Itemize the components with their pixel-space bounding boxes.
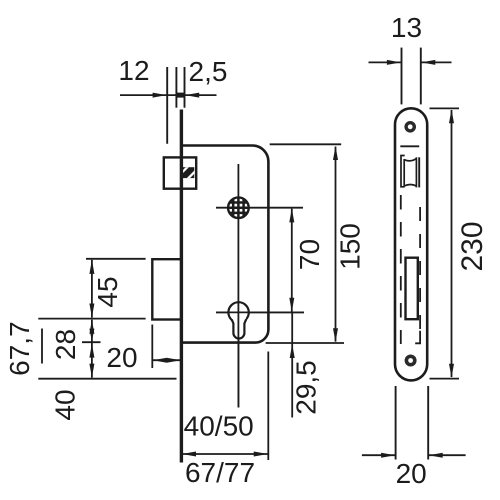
spindle follower (hatched circle) <box>228 197 249 218</box>
hidden line corner (case bottom right) <box>415 331 420 344</box>
tick line crossing 28 dimension <box>82 341 101 343</box>
lock case outline (side view) <box>183 146 269 343</box>
line L2 (y=378.7) <box>38 378 176 380</box>
bottom screw hole <box>405 355 417 367</box>
case bottom extension line <box>266 342 344 344</box>
deadbolt cutout <box>406 258 418 320</box>
svg-text:28: 28 <box>50 329 81 360</box>
latch bolt left edge <box>403 159 405 186</box>
dimension line 28 <box>91 320 93 378</box>
svg-text:40: 40 <box>49 389 80 420</box>
hidden line case top (behind plate) <box>400 145 419 147</box>
svg-text:13: 13 <box>391 12 422 43</box>
extension line A (x=167) for dim 12 <box>166 67 168 144</box>
hidden dashed line right (case side) <box>419 207 421 329</box>
latch cutout right edge <box>418 157 420 187</box>
svg-text:2,5: 2,5 <box>189 56 228 87</box>
top screw hole <box>404 121 416 133</box>
faceplate line D (side view) <box>180 110 183 463</box>
dimension line 29,5 <box>291 312 293 417</box>
ext lines for 13 <box>401 48 403 105</box>
svg-text:150: 150 <box>335 223 366 270</box>
svg-text:45: 45 <box>92 276 123 307</box>
dimension line 150 <box>335 147 337 342</box>
svg-text:40/50: 40/50 <box>184 411 254 442</box>
extension line deadbolt left face <box>151 325 153 369</box>
dimension line 12 / 2,5 <box>120 94 217 96</box>
dimension line 70 <box>291 209 293 312</box>
arrowhead left toward line C <box>185 93 199 98</box>
case back extension line <box>267 352 269 461</box>
svg-text:67/77: 67/77 <box>185 457 255 488</box>
svg-text:29,5: 29,5 <box>291 360 322 415</box>
latch bolt (side view) <box>164 157 196 188</box>
cylinder center line re-draw over keyhole <box>237 302 239 407</box>
extension line B (x=176.4) for dim 2,5 <box>175 67 177 108</box>
dimension 20 arrows (bottom) <box>362 454 395 456</box>
spindle horizontal center line <box>216 207 303 209</box>
dimension line 230 <box>451 110 453 377</box>
arrow blob between B and C <box>176 93 185 98</box>
line L1 (y=318.6) <box>38 318 145 320</box>
svg-text:67,7: 67,7 <box>4 321 35 376</box>
deadbolt (side view) <box>152 259 181 319</box>
faceplate outline <box>395 108 427 380</box>
case top extension line <box>270 143 342 145</box>
arrowhead right toward line A <box>153 93 167 98</box>
dimension 13 arrows <box>369 61 401 63</box>
latch bolt top concave curve <box>404 159 416 161</box>
extension line C (x=184.5) for dim 2,5 <box>184 67 186 108</box>
latch bolt bottom concave curve <box>404 185 416 187</box>
ext lines for bottom 20 <box>395 386 397 460</box>
ext lines for 230 <box>430 107 460 109</box>
dimension line 20 (deadbolt) <box>152 359 181 361</box>
dimension line 45 <box>91 260 93 318</box>
vertical center line through spindle and cylinder <box>237 164 239 408</box>
svg-text:70: 70 <box>294 239 325 270</box>
dim 45 top line <box>86 258 146 260</box>
svg-text:20: 20 <box>396 458 427 489</box>
svg-text:230: 230 <box>456 221 489 271</box>
svg-text:12: 12 <box>118 55 149 86</box>
dimension line 67/77 <box>181 453 268 455</box>
svg-text:20: 20 <box>106 342 137 373</box>
latch bolt right edge <box>415 157 417 187</box>
euro cylinder hole <box>228 302 248 322</box>
latch cutout left edge with corner stubs <box>401 156 405 187</box>
dimension bar 67,7 <box>41 329 43 364</box>
cylinder horizontal center line <box>216 311 304 313</box>
hidden dashed line left (case side) <box>400 195 402 344</box>
